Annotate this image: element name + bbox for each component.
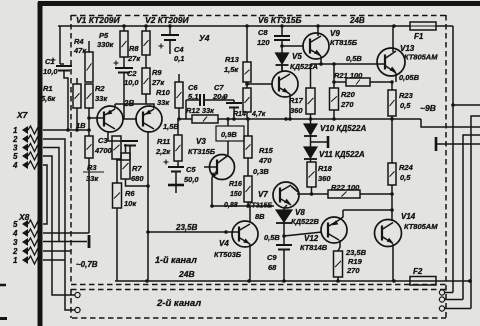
junction dots bottom rail bbox=[145, 279, 472, 283]
wire right vertical 2 bbox=[471, 116, 480, 309]
wire R8 to R9 bbox=[145, 55, 147, 68]
resistor R2 bbox=[85, 84, 93, 108]
resistor R5 bbox=[120, 31, 128, 57]
wire mid bus bbox=[179, 118, 192, 120]
wire X8 pin1 bbox=[43, 259, 65, 261]
svg-text:R19: R19 bbox=[348, 257, 363, 266]
svg-text:R21 100: R21 100 bbox=[334, 71, 363, 80]
svg-text:0,1: 0,1 bbox=[174, 54, 184, 63]
wire V11 to R18 bbox=[310, 159, 312, 162]
test point box 0,9V bbox=[216, 126, 244, 141]
svg-text:4: 4 bbox=[12, 229, 18, 238]
resistor R15 bbox=[244, 136, 252, 158]
connector X7 pin 5 bbox=[13, 152, 41, 161]
wire R5 top bbox=[123, 26, 125, 31]
junction R7-V2col bbox=[146, 184, 150, 188]
svg-text:R24: R24 bbox=[399, 163, 414, 172]
svg-text:C9: C9 bbox=[267, 253, 277, 262]
dashed box right edge bbox=[445, 15, 447, 318]
terminal circle in2 bbox=[75, 307, 80, 312]
transistor V13 bbox=[377, 48, 405, 76]
junction R20 top bbox=[332, 62, 336, 66]
wire R23 to R24 bbox=[391, 119, 393, 163]
svg-text:360: 360 bbox=[290, 106, 303, 115]
wire right vertical 3 bbox=[463, 135, 480, 300]
wire R20 bottom bbox=[333, 110, 335, 119]
svg-text:R2: R2 bbox=[95, 84, 105, 93]
wire V10 top bbox=[310, 119, 312, 124]
resistor R10 bbox=[175, 82, 183, 108]
wire V4 emitter to rail bbox=[249, 244, 251, 281]
svg-text:C3: C3 bbox=[98, 136, 108, 145]
wire X7 pin3 bbox=[43, 148, 87, 242]
wire R5 to C2 bbox=[123, 57, 125, 68]
junction dots on 24V rail bbox=[122, 24, 396, 28]
junction 23,5V left bbox=[146, 230, 150, 234]
wire X8 pin4 bbox=[43, 232, 89, 234]
svg-text:R4: R4 bbox=[74, 37, 84, 46]
svg-text:68: 68 bbox=[268, 263, 277, 272]
svg-text:330к: 330к bbox=[97, 40, 115, 49]
wire V13 base bbox=[384, 63, 385, 65]
wire shared emitters 2V bbox=[115, 104, 154, 109]
terminal circle out3 bbox=[439, 306, 471, 311]
svg-text:0,5В: 0,5В bbox=[264, 233, 280, 242]
svg-text:КТ814В: КТ814В bbox=[300, 243, 328, 252]
resistor R12 bbox=[192, 115, 218, 123]
svg-text:5: 5 bbox=[13, 220, 18, 229]
diode V10 bbox=[304, 124, 317, 136]
wire X8 pin3 bbox=[43, 241, 59, 243]
resistor R16 bbox=[244, 176, 252, 202]
svg-text:1: 1 bbox=[13, 256, 18, 265]
diode V5 bbox=[276, 53, 289, 65]
resistor R21 bbox=[346, 78, 370, 86]
emitter arrow V6 bbox=[282, 88, 290, 95]
wire X7 pin2 bbox=[43, 139, 75, 310]
resistor R19 bbox=[334, 251, 343, 277]
svg-text:33к: 33к bbox=[95, 94, 108, 103]
junction X7 pin1 node bbox=[87, 128, 91, 132]
junction V9 emitter bbox=[319, 62, 323, 66]
svg-text:V1 КТ209И: V1 КТ209И bbox=[76, 15, 120, 25]
emitter arrow V12 bbox=[331, 220, 339, 227]
wire R14 bottom bbox=[246, 112, 248, 119]
wire V12 emitter up bbox=[339, 210, 343, 220]
svg-text:47к: 47к bbox=[73, 46, 87, 55]
transistor V2 bbox=[136, 106, 162, 132]
capacitor C8 bbox=[274, 26, 290, 40]
connector X8 pin 4 bbox=[12, 229, 41, 238]
dashed box 1st channel bottom edge bbox=[71, 284, 446, 286]
resistor R20 bbox=[330, 88, 339, 110]
resistor C3 body bbox=[112, 136, 121, 159]
connector X8 pin 1 bbox=[13, 256, 41, 265]
wire V5 to V6 bbox=[281, 65, 283, 71]
svg-text:4700: 4700 bbox=[94, 146, 113, 155]
junction V12 base node bbox=[282, 234, 286, 238]
svg-text:2: 2 bbox=[12, 247, 18, 256]
wire V13 emitter bbox=[395, 73, 397, 82]
svg-text:КТ815Б: КТ815Б bbox=[330, 38, 358, 47]
junction V3 emitter bbox=[224, 230, 228, 234]
svg-text:КТ503Б: КТ503Б bbox=[214, 250, 242, 259]
svg-text:1,5В: 1,5В bbox=[163, 122, 179, 131]
terminal bar node A bbox=[88, 235, 91, 248]
resistor R8 bbox=[142, 31, 150, 55]
connector X8 pin 2 bbox=[12, 247, 41, 256]
resistor R6 bbox=[113, 183, 122, 208]
svg-text:R12 33к: R12 33к bbox=[186, 106, 215, 115]
svg-text:C1: C1 bbox=[45, 57, 55, 66]
transistor V12 bbox=[321, 217, 347, 243]
junction V9 base node bbox=[280, 44, 284, 48]
svg-text:0,5В: 0,5В bbox=[346, 54, 362, 63]
emitter arrow V9 bbox=[314, 50, 322, 57]
svg-text:КТ805АМ: КТ805АМ bbox=[404, 53, 438, 62]
junction dots mid bus bbox=[177, 117, 336, 121]
wire X8 pin2 bbox=[43, 250, 71, 252]
svg-text:R16: R16 bbox=[229, 181, 242, 188]
wire V7 collector up bbox=[291, 186, 298, 192]
wire V1 emitter up bbox=[114, 104, 116, 109]
wire X7 pin5 bbox=[43, 156, 75, 295]
svg-text:V7: V7 bbox=[258, 190, 268, 199]
svg-text:R18: R18 bbox=[318, 164, 333, 173]
svg-text:680: 680 bbox=[131, 174, 144, 183]
resistor R18 bbox=[307, 162, 316, 187]
terminal bar node B bbox=[311, 136, 329, 148]
transistor V1 bbox=[97, 106, 123, 132]
junction V6 base bbox=[245, 82, 249, 86]
capacitor C2 bbox=[114, 61, 134, 73]
wire R8 top bbox=[145, 26, 147, 31]
capacitor C1 bbox=[51, 58, 73, 71]
fuse F1 bbox=[394, 22, 453, 30]
dashed box 1st channel top edge bbox=[71, 15, 446, 17]
wire V6 emitter down bbox=[289, 94, 291, 119]
wire R7 bottom bbox=[126, 179, 149, 186]
svg-text:23,5В: 23,5В bbox=[345, 248, 367, 257]
svg-text:20,0: 20,0 bbox=[212, 92, 228, 101]
svg-text:C5: C5 bbox=[186, 165, 196, 174]
wire R10 bottom to mid wire bbox=[178, 108, 180, 119]
resistor R9 bbox=[142, 68, 150, 94]
svg-text:270: 270 bbox=[340, 100, 354, 109]
wire R21 left bbox=[334, 81, 346, 83]
wire R6 bottom to rail bbox=[116, 208, 118, 281]
wire R1 bottom bbox=[76, 108, 78, 130]
wire R17 top bbox=[310, 64, 312, 88]
svg-text:2-й канал: 2-й канал bbox=[156, 298, 201, 309]
resistor R13 bbox=[243, 62, 251, 82]
svg-text:V14: V14 bbox=[401, 212, 416, 221]
svg-text:1В: 1В bbox=[76, 121, 86, 130]
svg-text:R15: R15 bbox=[259, 146, 274, 155]
transistor V7 bbox=[273, 182, 299, 208]
connector X7 pin 3 bbox=[13, 144, 41, 153]
wire R9 bottom bbox=[145, 94, 147, 104]
svg-text:V10 КД522А: V10 КД522А bbox=[320, 124, 367, 133]
wire R7 top bbox=[125, 144, 127, 153]
wire R24 bottom bbox=[391, 185, 393, 194]
svg-text:0,5: 0,5 bbox=[400, 173, 411, 182]
svg-text:0,05В: 0,05В bbox=[399, 73, 420, 82]
terminal circle out1 bbox=[439, 290, 453, 295]
terminal circle out2 bbox=[439, 297, 463, 302]
capacitor C5 bbox=[164, 160, 185, 194]
transistor V6 bbox=[272, 71, 298, 97]
svg-text:R23: R23 bbox=[399, 91, 414, 100]
svg-text:R1: R1 bbox=[43, 84, 53, 93]
wire R23 top bbox=[391, 82, 393, 90]
svg-text:R14: R14 bbox=[233, 111, 246, 118]
transistor V14 bbox=[375, 220, 402, 247]
resistor R14 bbox=[243, 88, 251, 112]
svg-text:R8: R8 bbox=[129, 44, 139, 53]
wire V1 collector down bbox=[108, 131, 122, 141]
svg-text:V3: V3 bbox=[196, 137, 206, 146]
svg-text:1,5к: 1,5к bbox=[224, 65, 239, 74]
wire V12 col bus bbox=[343, 209, 392, 211]
emitter arrow V7 bbox=[284, 199, 292, 206]
wire C8 to V5 bbox=[281, 40, 283, 53]
svg-text:0,5: 0,5 bbox=[400, 101, 411, 110]
junction R18 bottom bbox=[310, 192, 314, 196]
resistor R3 bbox=[85, 136, 93, 158]
junction F1 wire bbox=[451, 103, 455, 107]
svg-text:КД522В: КД522В bbox=[291, 217, 320, 226]
capacitor C7 bbox=[222, 95, 243, 120]
wire R15 top bbox=[247, 119, 249, 136]
svg-text:R20: R20 bbox=[341, 90, 356, 99]
emitter arrow V4 bbox=[243, 238, 251, 245]
resistor R1 bbox=[73, 84, 81, 108]
svg-text:0,3В: 0,3В bbox=[253, 167, 269, 176]
wire R11 bottom bbox=[177, 161, 179, 167]
capacitor C9 bbox=[276, 245, 292, 250]
wire V10-V11 bbox=[310, 136, 312, 147]
junction V7 base node bbox=[246, 204, 250, 208]
svg-text:R13: R13 bbox=[225, 55, 240, 64]
wire V14 collector bbox=[391, 210, 393, 221]
wire R24 to V14 bbox=[391, 194, 393, 210]
svg-text:0,9В: 0,9В bbox=[221, 130, 237, 139]
svg-text:~9В: ~9В bbox=[420, 103, 436, 113]
svg-text:V5: V5 bbox=[292, 52, 302, 61]
wire R4 top bbox=[88, 41, 90, 52]
wire V3 emitter down bbox=[211, 178, 213, 206]
emitter arrow V14 bbox=[387, 238, 395, 245]
wire C1 down bbox=[64, 71, 68, 131]
wire bottom rail bbox=[115, 280, 470, 282]
wire C9 to rail bbox=[283, 250, 285, 282]
terminal circle in1 bbox=[75, 292, 80, 297]
svg-text:R6: R6 bbox=[125, 189, 135, 198]
wire R13 top bbox=[246, 26, 248, 62]
svg-text:C7: C7 bbox=[214, 83, 224, 92]
svg-text:150: 150 bbox=[230, 191, 242, 198]
wire R19 to rail bbox=[337, 277, 339, 281]
svg-text:У4: У4 bbox=[199, 33, 210, 43]
svg-text:V4: V4 bbox=[219, 239, 229, 248]
wire 23,5V bbox=[148, 231, 238, 233]
wire R11 top bbox=[177, 119, 179, 135]
wire F1 down right side bbox=[452, 26, 454, 293]
connector X8 pin 3 bbox=[13, 238, 41, 247]
wire R13-R14 bbox=[246, 82, 248, 88]
svg-text:КТ805АМ: КТ805АМ bbox=[404, 222, 438, 231]
wire R18 bottom bbox=[311, 187, 313, 194]
svg-text:2,2к: 2,2к bbox=[155, 147, 171, 156]
wire 0,5V bus bbox=[311, 63, 385, 65]
svg-text:5,1: 5,1 bbox=[188, 92, 198, 101]
resistor R23 bbox=[388, 90, 396, 116]
svg-text:R10: R10 bbox=[156, 88, 171, 97]
svg-text:10,0: 10,0 bbox=[124, 78, 139, 87]
wire R2 bottom to R3 bbox=[88, 108, 90, 136]
resistor R4 bbox=[85, 52, 93, 82]
junction V6 emitter bbox=[288, 117, 292, 121]
wire R10 top bbox=[178, 74, 180, 82]
svg-text:270: 270 bbox=[346, 266, 360, 275]
svg-text:F2: F2 bbox=[413, 267, 423, 276]
terminal bar node C bbox=[436, 137, 480, 151]
svg-text:23,5В: 23,5В bbox=[175, 223, 198, 232]
svg-text:V6 КТ315Б: V6 КТ315Б bbox=[258, 15, 301, 25]
connector X7 pin 4 bbox=[12, 161, 41, 170]
svg-text:33к: 33к bbox=[86, 174, 99, 183]
wire V14 emitter to rail bbox=[392, 244, 394, 281]
svg-text:F1: F1 bbox=[414, 32, 424, 41]
emitter arrow V3 bbox=[209, 172, 216, 180]
svg-text:27к: 27к bbox=[127, 54, 141, 63]
wire R22 right bbox=[360, 193, 392, 195]
junction V13 emitter bbox=[390, 80, 394, 84]
svg-text:4,7к: 4,7к bbox=[251, 111, 266, 118]
junction V1 base node bbox=[87, 116, 91, 120]
wire V9 emitter down bbox=[320, 56, 322, 64]
svg-text:C6: C6 bbox=[188, 83, 198, 92]
junction R21 left bbox=[332, 80, 336, 84]
wire V9 base bbox=[282, 45, 303, 47]
dashed box 2nd channel left edge bbox=[70, 289, 72, 318]
svg-text:3: 3 bbox=[13, 238, 18, 247]
svg-text:120: 120 bbox=[257, 38, 270, 47]
dashed box 1st channel left edge bbox=[70, 15, 72, 284]
svg-text:~0,7В: ~0,7В bbox=[76, 260, 98, 269]
resistor R7 bbox=[121, 153, 130, 179]
fuse F2 bbox=[410, 277, 436, 286]
connector X8 pin 5 bbox=[13, 220, 41, 229]
wire V7 base bbox=[248, 205, 274, 207]
capacitor C6 bbox=[186, 94, 234, 106]
wire C1 to rail bbox=[59, 26, 61, 64]
connector X7 pin 2 bbox=[12, 135, 41, 144]
scan mark left edge lower bbox=[0, 317, 7, 320]
svg-text:470: 470 bbox=[258, 156, 272, 165]
svg-text:R11: R11 bbox=[157, 137, 170, 146]
svg-text:R22 100: R22 100 bbox=[331, 183, 360, 192]
wire V12 base bbox=[284, 232, 322, 236]
svg-text:0,88: 0,88 bbox=[224, 202, 238, 209]
emitter arrow V2 bbox=[144, 110, 152, 117]
wire R1 top stub bbox=[76, 78, 78, 84]
dashed box 2nd channel top edge bbox=[71, 289, 446, 291]
svg-text:24В: 24В bbox=[178, 269, 195, 279]
wire V3 emitter to R16 node bbox=[212, 205, 248, 207]
svg-text:R7: R7 bbox=[132, 164, 142, 173]
wire R23 bottom bbox=[391, 116, 393, 119]
capacitor C4 bbox=[159, 26, 180, 54]
wire V2col down to rail bbox=[147, 232, 149, 281]
svg-text:V12: V12 bbox=[304, 234, 319, 243]
wire R3 bottom to X8 pin4 bbox=[88, 158, 90, 233]
resistor R11 bbox=[174, 135, 182, 161]
emitter arrow V13 bbox=[390, 66, 398, 73]
svg-text:27к: 27к bbox=[151, 78, 165, 87]
svg-text:X7: X7 bbox=[16, 110, 29, 120]
svg-text:5: 5 bbox=[13, 152, 18, 161]
svg-text:V2 КТ209И: V2 КТ209И bbox=[145, 15, 189, 25]
diode V11 bbox=[304, 147, 317, 159]
wire R16 bottom bbox=[247, 202, 249, 206]
wire V6 base tap bbox=[247, 83, 272, 85]
wire V6 collector up bbox=[281, 65, 283, 72]
transistor V9 bbox=[303, 33, 329, 59]
svg-text:10к: 10к bbox=[124, 199, 137, 208]
svg-text:24В: 24В bbox=[349, 16, 365, 25]
junction R24 bottom bbox=[390, 192, 394, 196]
svg-text:C4: C4 bbox=[174, 45, 184, 54]
resistor R17 bbox=[306, 88, 315, 114]
diode V8 bbox=[276, 210, 292, 223]
svg-text:Р5: Р5 bbox=[99, 31, 109, 40]
svg-text:10,0: 10,0 bbox=[43, 67, 58, 76]
svg-text:33к: 33к bbox=[157, 98, 170, 107]
wire R21 right bbox=[370, 81, 392, 83]
svg-text:R9: R9 bbox=[152, 68, 162, 77]
svg-text:V11 КД522А: V11 КД522А bbox=[319, 150, 365, 159]
junction rail right bbox=[468, 279, 472, 283]
svg-text:8В: 8В bbox=[255, 212, 265, 221]
wire R20 top bbox=[333, 64, 335, 88]
wire V8 to C9 bbox=[283, 223, 285, 245]
svg-text:50,0: 50,0 bbox=[184, 175, 199, 184]
wire V12 collector bbox=[338, 240, 340, 251]
wire X7 pin1 bbox=[43, 129, 89, 131]
wire V1 base bbox=[89, 117, 104, 119]
wire V4 collector up bbox=[248, 206, 250, 222]
wire R22 bus left bbox=[297, 193, 328, 195]
wire stub right y105 bbox=[453, 104, 480, 106]
svg-text:2В: 2В bbox=[123, 99, 134, 108]
junction R23 bottom bbox=[390, 117, 394, 121]
transistor V3 bbox=[210, 155, 235, 180]
svg-text:КТ315Б: КТ315Б bbox=[188, 147, 216, 156]
svg-text:1: 1 bbox=[13, 126, 18, 135]
junction V14 collector node bbox=[390, 208, 394, 212]
svg-text:V8: V8 bbox=[295, 208, 305, 217]
svg-text:360: 360 bbox=[318, 174, 331, 183]
svg-text:5,6к: 5,6к bbox=[41, 94, 56, 103]
svg-text:1-й канал: 1-й канал bbox=[155, 255, 197, 265]
wire V2 collector down bbox=[147, 131, 149, 232]
wire C6 left down bbox=[185, 100, 187, 119]
resistor R24 bbox=[388, 163, 396, 185]
svg-text:V9: V9 bbox=[330, 29, 340, 38]
connector X7 pin 1 bbox=[13, 126, 41, 135]
